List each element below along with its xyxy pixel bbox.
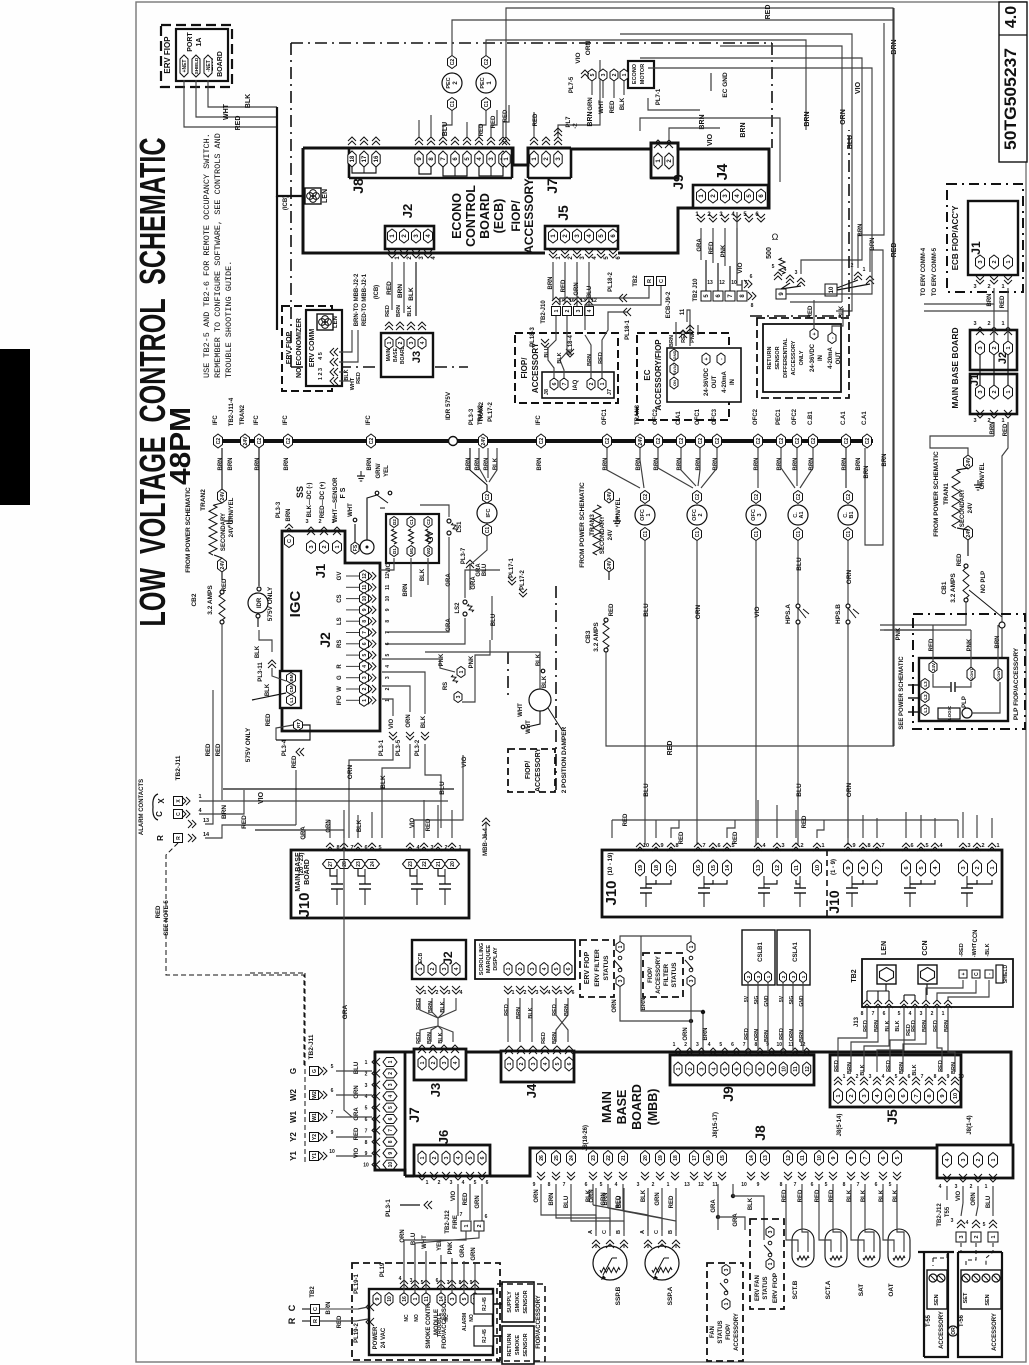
svg-text:FROM POWER SCHEMATIC: FROM POWER SCHEMATIC [579,482,586,568]
svg-text:9: 9 [385,608,391,611]
svg-text:(MBB): (MBB) [646,1089,660,1126]
J8 pin 18 [348,151,356,167]
svg-text:VIO: VIO [386,563,392,574]
J9 MBB pin 8 [756,1062,764,1076]
wire RED vert right [892,317,894,746]
svg-text:3: 3 [781,843,784,849]
wire coil OFC3 down [755,541,757,845]
svg-text:TROUBLE: TROUBLE [437,1312,443,1337]
smoke sensors dashed box [497,1284,545,1361]
svg-text:MAIN BASE BOARD: MAIN BASE BOARD [950,327,960,408]
svg-text:EC GND: EC GND [722,72,729,98]
bus junction open circle IDR [449,437,458,446]
J10 pin 1 right [988,860,997,876]
svg-text:TB2: TB2 [310,1286,316,1298]
svg-text:24V: 24V [220,491,226,501]
svg-text:SMOKE: SMOKE [515,1335,521,1356]
svg-text:SECONDARY: SECONDARY [600,516,606,554]
IDR coil circle [248,593,268,613]
T55 squares [956,1232,966,1242]
svg-text:3: 3 [388,1083,394,1086]
svg-text:25: 25 [554,1155,560,1161]
svg-text:BRN: BRN [858,224,864,237]
svg-text:STATUS: STATUS [763,1276,769,1299]
svg-text:3: 3 [973,284,976,290]
svg-text:FILTER: FILTER [663,964,670,987]
TRAN3 24V upper [605,489,614,503]
svg-text:7: 7 [881,843,884,849]
svg-text:-RED: -RED [959,943,965,956]
svg-text:BLK: BLK [245,94,252,108]
svg-text:BOARD: BOARD [217,51,224,77]
svg-text:5: 5 [560,990,563,996]
wire C BRN [199,790,244,814]
econo motor pin 1 [620,69,628,81]
svg-text:4: 4 [460,990,463,996]
svg-text:4: 4 [456,1156,462,1159]
wire RED J7-1 [533,112,535,137]
T55 chevrons [957,1220,965,1228]
svg-text:GRA: GRA [301,826,307,840]
bus pill 24V TRAN2 at x245 [241,434,250,448]
svg-text:7: 7 [914,1094,920,1097]
svg-text:OUT: OUT [712,375,718,388]
J10 pin 13 [754,860,763,876]
svg-text:RED: RED [426,818,432,831]
J8 MBB pin 24 [567,1151,576,1166]
svg-text:ACCESSORY: ACCESSORY [535,748,542,792]
J5 pin 3 [573,229,582,243]
svg-text:VIO: VIO [737,262,744,273]
svg-text:C: C [176,812,182,816]
svg-text:(1 - 9): (1 - 9) [831,859,837,875]
TRAN2 24V pill lower [218,558,227,572]
svg-text:OR: OR [951,1327,957,1335]
svg-text:7: 7 [875,866,881,869]
svg-text:14: 14 [749,1155,755,1161]
svg-text:PEC1: PEC1 [776,409,782,425]
TB2 mini sq C [657,277,666,286]
svg-text:3: 3 [601,73,607,76]
svg-text:11: 11 [385,584,391,590]
svg-text:13: 13 [763,1155,769,1161]
wire bus to tran2 [221,448,223,489]
bus pill C2 OFC2 at x797 [793,434,802,448]
svg-text:2: 2 [365,1071,368,1077]
J7 MBB pin 6 [383,1115,397,1124]
svg-text:R: R [647,279,653,283]
MBB J10 20-23 box [291,850,469,918]
svg-text:VIO: VIO [575,52,582,63]
svg-text:ORN: ORN [683,1027,689,1040]
EC ACCESSORY FIOP dashed box [637,333,729,420]
MBB J10 10-19 1-9 box [602,850,1002,917]
svg-text:BRN: BRN [951,1062,957,1074]
IGC board outline [282,531,380,731]
svg-text:VIO: VIO [410,818,416,829]
svg-text:RED: RED [504,1004,510,1016]
svg-text:STATUS: STATUS [671,962,678,988]
svg-text:RED: RED [863,1020,869,1032]
ECB FIOP J1 pin 1 [1004,255,1013,269]
svg-text:10: 10 [362,596,368,602]
wire ORN from W2 [336,1094,372,1096]
marquee pin 3 [528,963,536,976]
svg-text:OFC1: OFC1 [695,408,701,425]
svg-text:BLK: BLK [895,1020,901,1031]
svg-text:10: 10 [958,1074,964,1080]
T-55 sensor terminal box [927,1270,947,1309]
svg-text:BRN: BRN [990,422,996,435]
svg-text:RED: RED [815,1189,821,1202]
svg-text:BLK: BLK [407,305,413,316]
svg-text:FIOP/: FIOP/ [509,200,523,232]
svg-text:1: 1 [420,1156,426,1159]
wires j8a to ssp [540,1184,542,1205]
IAQ pin 6 [550,378,558,390]
chevrons right of sq pins [744,280,752,288]
svg-text:RED: RED [491,115,497,128]
svg-text:IN: IN [818,355,824,361]
svg-text:5: 5 [898,1011,901,1017]
TB2 sq C smoke [311,1305,320,1314]
svg-text:VIO: VIO [855,81,862,94]
HPS.A switch [796,604,800,608]
svg-text:16: 16 [706,1155,712,1161]
svg-text:RJ-45: RJ-45 [482,1329,488,1343]
svg-text:RED: RED [385,305,391,317]
svg-text:RED: RED [744,1028,750,1040]
wires smoke top [403,1245,405,1294]
svg-text:3: 3 [795,270,798,276]
J9 MBB box [670,1055,814,1085]
svg-text:2: 2 [398,341,404,344]
MBB main base board outline [375,1052,1011,1176]
svg-text:5: 5 [378,845,381,851]
TB2 sq R smoke [311,1317,320,1326]
thermistor SCT.B [792,1229,814,1267]
J8 MBB pin 21 [619,1151,628,1166]
chevrons 2 1 [854,272,862,280]
J2 IGC pin 3 [360,672,369,684]
svg-text:RED: RED [933,1020,939,1032]
svg-text:RED: RED [241,815,248,829]
svg-text:SMOKE: SMOKE [515,1292,521,1313]
svg-text:1: 1 [388,1060,394,1063]
svg-text:CCN: CCN [973,930,979,943]
HPS.B switch [846,604,850,608]
J13 chevron 8 [863,1000,871,1008]
svg-text:SUPPLY: SUPPLY [507,1291,513,1313]
svg-text:4: 4 [454,967,460,970]
CB3 breaker [604,618,608,622]
svg-text:BRN: BRN [428,1001,434,1013]
svg-text:2: 2 [438,1180,441,1186]
svg-text:WHT: WHT [518,703,524,717]
svg-text:BLK: BLK [879,1189,885,1202]
TB2-J10 sq pin 5 [701,291,711,301]
svg-text:PL17-2: PL17-2 [520,570,526,590]
svg-text:10: 10 [782,1066,788,1072]
svg-text:9: 9 [846,866,852,869]
svg-text:2: 2 [519,1062,525,1065]
svg-text:RED: RED [416,998,422,1010]
T-55 screw terminals [929,1274,937,1282]
TB2 shield bar [996,965,1003,983]
svg-text:8: 8 [861,866,867,869]
fire sq 2 [474,1221,484,1231]
svg-text:BRN: BRN [740,122,747,137]
svg-text:BLK: BLK [421,715,427,728]
svg-text:POWER: POWER [373,1326,379,1349]
svg-text:J10: J10 [296,892,313,917]
ERV FIOP NO ECONOMIZER dashed box [282,306,332,391]
smoke module pin 10 [385,1293,393,1306]
wire brn smoke [358,1307,368,1309]
ERV board pin -NET [204,55,212,77]
svg-text:2 POSITION DAMPER: 2 POSITION DAMPER [561,726,568,793]
J5 MBB pin 9 [938,1089,947,1104]
GV box [386,514,439,563]
wire fs up [354,524,356,542]
svg-text:RS: RS [443,682,449,690]
svg-text:ORN: ORN [534,1189,540,1202]
svg-text:F S: F S [340,487,347,498]
J8 pin 3 [487,151,495,167]
svg-text:5: 5 [600,1182,603,1188]
svg-text:IFC: IFC [283,415,289,425]
svg-text:1: 1 [1001,321,1004,327]
svg-text:24V: 24V [968,503,974,514]
svg-text:19: 19 [658,1155,664,1161]
J8 MBB pin 7 [861,1151,870,1166]
svg-text:2: 2 [388,1072,394,1075]
svg-text:(ICB): (ICB) [283,196,289,210]
svg-text:TRAN2: TRAN2 [240,404,246,425]
svg-text:2: 2 [992,260,998,263]
svg-text:BLU: BLU [354,1062,360,1074]
svg-text:LOW VOLTAGE CONTROL SCHEMAT: LOW VOLTAGE CONTROL SCHEMATIC [132,137,173,626]
svg-text:3: 3 [768,1230,774,1233]
wire RED right column [893,8,895,746]
svg-text:RED: RED [156,905,162,918]
svg-text:C1: C1 [846,531,852,538]
svg-text:24VAC: 24VAC [673,363,677,374]
alarm sq X [174,797,183,806]
svg-text:9: 9 [757,1182,760,1188]
svg-text:1: 1 [836,1094,842,1097]
svg-text:GRN: GRN [655,1192,661,1205]
SSP.A chevrons ACB [644,1240,652,1248]
coil feed diagonals OFC3 [757,448,759,488]
svg-text:NC: NC [404,1314,410,1322]
svg-text:RED: RED [782,1189,788,1202]
svg-text:6: 6 [735,1067,741,1070]
ECB J8 tab bottom [349,177,512,180]
svg-text:RED: RED [709,241,715,254]
svg-text:3: 3 [536,990,539,996]
J8 MBB pin 9 [829,1151,838,1166]
svg-text:24: 24 [370,861,376,867]
svg-text:BRN: BRN [484,458,490,471]
svg-text:BLK: BLK [265,683,271,696]
svg-text:CONT: CONT [969,668,974,680]
wire BLK from -NET [208,80,277,107]
svg-text:2: 2 [385,687,391,690]
svg-text:16: 16 [374,155,380,162]
wires bus to IFC [470,448,487,491]
J4 MBB box [501,1051,574,1082]
svg-text:PL3-2: PL3-2 [415,739,421,756]
svg-text:5: 5 [468,1156,474,1159]
svg-text:8: 8 [336,845,339,851]
svg-text:6: 6 [364,845,367,851]
svg-text:1: 1 [507,1062,513,1065]
svg-text:BOARD: BOARD [304,859,311,885]
svg-text:24V: 24V [931,663,936,671]
svg-text:W2: W2 [289,1088,298,1101]
PLP L pin stubs [908,684,920,686]
svg-text:LEN: LEN [333,316,339,328]
svg-text:RS: RS [337,640,343,648]
ECB dash-dot boundary left [290,43,292,367]
TRAN2 24V pill upper [218,489,227,503]
svg-text:ECB: ECB [418,952,424,963]
svg-text:C1: C1 [754,531,760,538]
J6 MBB pin 1 [418,1151,426,1165]
svg-text:13: 13 [707,280,713,286]
J10 pin 21 [431,860,446,869]
svg-text:FIOP/: FIOP/ [648,967,654,983]
svg-text:5: 5 [365,1106,368,1112]
thick comm wire down to ERV COMM [276,196,278,330]
svg-text:ORN: ORN [789,1029,795,1041]
MBB J1 right pin 2 [990,385,999,399]
econo motor pin 2 [610,69,618,81]
svg-text:BLK—DC (-): BLK—DC (-) [307,483,313,518]
svg-text:+NET: +NET [182,60,188,73]
svg-text:A1: A1 [799,511,805,518]
svg-text:BRN-TO MBB-J2-2: BRN-TO MBB-J2-2 [354,273,360,326]
wire VIO J9-2 [669,128,720,140]
svg-text:9: 9 [470,1280,473,1286]
J10 pin 14 [723,860,732,876]
J8 MBB pin 14 [747,1151,756,1166]
wires igc low [259,630,272,652]
svg-text:ALARM CONTACTS: ALARM CONTACTS [139,779,145,835]
svg-text:BLK: BLK [493,457,499,470]
svg-text:GND: GND [764,995,770,1007]
svg-text:RED: RED [779,1028,785,1040]
svg-text:BLK: BLK [380,775,387,789]
svg-text:J6: J6 [436,1130,451,1144]
wires ecb j2 down [420,998,438,1026]
wires into plp [932,625,934,661]
ECB J9 tab bottom [651,177,678,180]
svg-text:5: 5 [983,1222,986,1228]
ECONO MOTOR box [628,61,654,88]
svg-text:BLK: BLK [847,1189,853,1202]
svg-text:C.A1: C.A1 [862,411,868,425]
svg-text:4: 4 [882,1074,885,1080]
wire RED down 2 [212,690,214,820]
svg-text:IFC: IFC [536,415,542,425]
svg-text:TRAN2: TRAN2 [479,401,485,422]
svg-text:A: A [640,1230,646,1234]
svg-text:C1: C1 [450,101,456,108]
PEC 1 pin C2 [482,56,491,69]
J3 mini pin 2 [396,337,404,349]
J3 MBB pin 2 [429,1056,437,1070]
svg-text:PNK: PNK [448,1241,454,1254]
svg-text:C2: C2 [695,494,701,501]
econo motor pin 3 [599,69,607,81]
TB2-J10 sq pin 6 [713,291,723,301]
wires j13 to j5 [838,1008,867,1072]
svg-text:SEN: SEN [985,1294,991,1305]
svg-text:6: 6 [717,843,720,849]
wire GRA from W1 [336,1116,372,1118]
ECB J2 mini pin 3 [440,963,448,976]
svg-text:3: 3 [531,1062,537,1065]
svg-text:6: 6 [908,1074,911,1080]
chevrons pl3 [389,732,397,740]
J5 pin 6 [609,229,618,243]
svg-text:GRA: GRA [697,238,703,252]
svg-text:WHT—SENSOR: WHT—SENSOR [333,477,339,523]
svg-text:SECONDARY: SECONDARY [221,513,227,551]
svg-text:J8(15-17): J8(15-17) [713,1112,719,1138]
T-55 accessory outline [918,1252,954,1357]
svg-text:3: 3 [862,1094,868,1097]
bus pill C2 OFC2 at x658 [654,434,663,448]
svg-text:7: 7 [350,845,353,851]
svg-text:BLK: BLK [420,568,426,581]
svg-text:WHT: WHT [348,503,354,517]
svg-text:2: 2 [992,346,998,349]
svg-text:BLU: BLU [491,614,497,626]
svg-text:8: 8 [459,1280,462,1286]
svg-text:PL17-2: PL17-2 [488,402,494,422]
J10 pin 28 [337,860,352,869]
svg-text:6: 6 [585,1182,588,1188]
svg-text:RED: RED [808,305,814,318]
svg-text:+: + [704,357,710,360]
svg-text:4: 4 [543,1062,549,1065]
svg-text:7: 7 [872,1011,875,1017]
svg-text:BLU: BLU [482,564,488,576]
svg-text:A: A [588,1230,594,1234]
ECB dash-dot boundary right upper [771,43,773,148]
CB2 zigzag [219,594,225,620]
svg-text:FROM POWER SCHEMATIC: FROM POWER SCHEMATIC [933,451,940,537]
svg-text:RED: RED [479,123,485,136]
fan status switch [724,1279,728,1283]
svg-text:1A: 1A [196,38,203,47]
wire coil CA1 down [797,541,799,845]
svg-text:13: 13 [756,865,762,871]
svg-text:USE TB2-5 AND TB2-6 FOR REMOTE: USE TB2-5 AND TB2-6 FOR REMOTE OCCUPANCY… [202,133,212,378]
flame sensor circle [360,540,374,554]
svg-text:2: 2 [322,545,328,548]
svg-text:DIFFERENTIAL: DIFFERENTIAL [783,338,789,378]
svg-text:(ECB): (ECB) [492,199,506,234]
CSLB1 box [742,930,775,985]
LS1 switch [447,519,451,523]
svg-text:GRN: GRN [601,1192,607,1205]
svg-text:G: G [312,1069,318,1073]
svg-text:6: 6 [901,1094,907,1097]
